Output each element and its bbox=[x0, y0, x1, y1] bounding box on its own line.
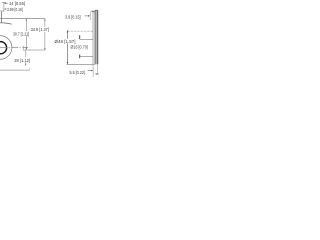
svg-text:14 [0.55]: 14 [0.55] bbox=[9, 1, 25, 6]
svg-text:3.99 [0.16]: 3.99 [0.16] bbox=[7, 7, 23, 12]
svg-text:28 [1.12]: 28 [1.12] bbox=[14, 58, 30, 63]
svg-text:Ø16 [0.70]: Ø16 [0.70] bbox=[71, 45, 88, 50]
svg-text:5.5 [0.22]: 5.5 [0.22] bbox=[70, 70, 85, 75]
svg-text:Ø48 [1.57]: Ø48 [1.57] bbox=[55, 39, 76, 44]
svg-text:34.9 [1.37]: 34.9 [1.37] bbox=[31, 27, 49, 32]
svg-text:3.9 [0.15]: 3.9 [0.15] bbox=[65, 14, 81, 19]
svg-text:30.7 [1.21]: 30.7 [1.21] bbox=[13, 31, 29, 36]
